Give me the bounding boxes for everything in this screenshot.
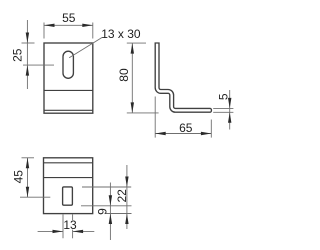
dim 25 line — [26, 20, 28, 89]
dim 55 extension left — [43, 23, 45, 39]
arrow 45 top — [26, 158, 29, 169]
arrow 80 top — [131, 43, 134, 54]
side view profile — [155, 43, 211, 112]
dim 65 extension left — [154, 97, 156, 138]
arrow 22 bottom — [125, 214, 128, 225]
svg-text:45: 45 — [12, 170, 26, 184]
dim 5 line — [229, 90, 231, 130]
arrow 9 bottom — [109, 214, 112, 225]
dim 13 extension right — [72, 214, 74, 238]
top view plate edge line — [44, 162, 93, 164]
svg-text:65: 65 — [179, 121, 193, 135]
leader 13x30 — [69, 37, 102, 57]
top view bend line — [44, 177, 93, 179]
front view body outline — [44, 43, 93, 113]
dim 65 line — [155, 133, 211, 135]
arrow 13 left — [53, 230, 64, 233]
svg-text:13 x 30: 13 x 30 — [101, 27, 141, 41]
arrow 80 bottom — [131, 102, 134, 113]
dim 80 line — [131, 43, 133, 113]
dim 80 extension bottom — [127, 112, 159, 114]
arrow 22 top — [125, 177, 128, 188]
svg-text:80: 80 — [117, 68, 131, 82]
front view bend line — [44, 89, 93, 91]
arrow 65 left — [155, 132, 166, 135]
arrow 13 right — [73, 230, 84, 233]
arrow 45 bottom — [26, 187, 29, 198]
top view hole 13x22 — [63, 187, 73, 205]
dim 22 line — [126, 165, 128, 229]
dim 9/22 extension bottom (body bottom) — [106, 213, 132, 215]
svg-text:9: 9 — [95, 208, 109, 215]
dim 55 line — [44, 24, 93, 26]
arrow 25 bottom — [26, 65, 29, 76]
svg-text:55: 55 — [62, 11, 76, 25]
label 13 backing — [64, 220, 75, 229]
dim 9 line — [109, 183, 111, 241]
arrow 9 top — [109, 195, 112, 206]
dim 13 line right — [73, 230, 95, 232]
dim 25 extension bottom (slot centre) — [23, 64, 54, 66]
dim 9 extension top (hole bottom) — [81, 205, 132, 207]
arrow 55 left — [44, 24, 55, 27]
dim 5 extension bottom — [213, 111, 233, 113]
arrow 5 bottom — [228, 112, 231, 123]
dim 55 extension right — [92, 23, 94, 39]
dim 13 extension left — [62, 214, 64, 238]
dim 13 line left — [38, 230, 63, 232]
dim 25 extension top — [22, 42, 35, 44]
arrow 5 top — [228, 98, 231, 109]
arrow 65 right — [201, 132, 212, 135]
arrow 25 top — [26, 33, 29, 44]
dim 45 extension top — [22, 157, 35, 159]
arrow 55 right — [82, 24, 93, 27]
dim 45 extension bottom (hole centre) — [20, 196, 50, 198]
front view foot edge line — [44, 109, 93, 111]
dim 45 line — [27, 158, 29, 197]
svg-text:13: 13 — [63, 218, 77, 232]
svg-text:25: 25 — [11, 48, 25, 62]
svg-text:5: 5 — [217, 93, 231, 100]
dim 22 extension top (hole top) — [82, 186, 131, 188]
dim 5 extension top — [213, 107, 233, 109]
dim 65 extension right — [210, 120, 212, 138]
top view body outline — [44, 158, 93, 214]
front view slot 13x30 — [63, 51, 73, 78]
dim 80 extension top — [127, 42, 146, 44]
svg-text:22: 22 — [115, 189, 129, 203]
